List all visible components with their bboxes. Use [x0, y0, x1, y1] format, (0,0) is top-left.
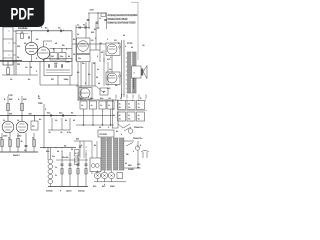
svg-text:anxiety: anxiety: [78, 190, 84, 193]
svg-text:F: F: [140, 145, 142, 147]
svg-text:2: 2: [66, 49, 68, 51]
svg-text:2: 2: [41, 27, 43, 29]
svg-text:Cn: Cn: [24, 150, 26, 152]
svg-text:Hi: Hi: [143, 45, 146, 47]
svg-text:6V6: 6V6: [107, 59, 111, 61]
svg-text:1A: 1A: [126, 153, 129, 156]
svg-text:3w: 3w: [119, 107, 122, 109]
svg-text:3k: 3k: [21, 141, 23, 143]
svg-text:4u: 4u: [97, 69, 99, 71]
svg-text:2: 2: [45, 109, 47, 111]
svg-text:Tndp: Tndp: [64, 79, 70, 81]
svg-text:4x: 4x: [100, 105, 102, 107]
svg-text:3w: 3w: [128, 119, 131, 121]
svg-text:4u: 4u: [28, 79, 31, 81]
svg-text:4u: 4u: [32, 138, 34, 140]
svg-text:A: A: [4, 98, 6, 101]
svg-text:4x: 4x: [128, 115, 130, 117]
svg-text:F Ta: F Ta: [67, 132, 72, 134]
svg-text:+x: +x: [99, 18, 101, 20]
svg-text:Cx: Cx: [77, 25, 79, 27]
svg-text:1: 1: [107, 39, 109, 41]
svg-text:PDF: PDF: [11, 5, 35, 23]
svg-text:x3: x3: [55, 43, 58, 45]
svg-text:2b: 2b: [73, 54, 76, 56]
svg-text:4u: 4u: [94, 29, 97, 31]
svg-text:x: x: [110, 57, 112, 59]
svg-text:C7B: C7B: [90, 10, 95, 12]
svg-text:x: x: [121, 134, 123, 136]
svg-text:x4: x4: [57, 151, 60, 153]
svg-text:2w: 2w: [115, 85, 118, 87]
svg-text:30u: 30u: [47, 113, 50, 115]
svg-text:4HP: 4HP: [23, 99, 28, 101]
svg-text:Tm: Tm: [52, 156, 55, 158]
svg-text:6V6: 6V6: [102, 186, 105, 188]
svg-text:F: F: [60, 191, 62, 193]
svg-text:x1: x1: [131, 47, 134, 49]
svg-text:x: x: [133, 151, 135, 153]
svg-text:a: a: [9, 43, 10, 45]
svg-text:Cx: Cx: [25, 67, 27, 69]
svg-text:2x: 2x: [123, 35, 126, 37]
svg-text:x: x: [104, 184, 106, 186]
svg-text:30u: 30u: [59, 113, 62, 115]
svg-text:2x: 2x: [93, 63, 96, 65]
svg-text:2k: 2k: [71, 149, 74, 151]
svg-text:N: N: [140, 98, 142, 100]
svg-text:120: 120: [137, 164, 141, 166]
svg-text:6V6: 6V6: [107, 88, 111, 90]
svg-text:GF1: GF1: [128, 165, 133, 167]
svg-text:Rx: Rx: [88, 74, 90, 76]
svg-text:47k: 47k: [91, 32, 95, 34]
svg-text:4x: 4x: [138, 104, 140, 106]
svg-text:1: 1: [36, 71, 38, 73]
svg-text:Cx: Cx: [58, 28, 62, 30]
svg-text:Rx: Rx: [109, 98, 111, 100]
svg-text:6V6: 6V6: [93, 186, 96, 188]
svg-text:45v 35x: 45v 35x: [62, 157, 69, 159]
svg-text:6CA4: 6CA4: [110, 185, 115, 188]
svg-text:3w: 3w: [138, 107, 141, 109]
svg-text:x2: x2: [30, 67, 33, 69]
svg-text:Rx: Rx: [38, 98, 42, 100]
svg-text:6: 6: [85, 83, 87, 85]
svg-text:2T,2R: 2T,2R: [127, 43, 133, 45]
svg-text:C: C: [86, 147, 88, 149]
svg-text:speed: speed: [66, 191, 71, 193]
svg-text:4u: 4u: [73, 39, 76, 41]
svg-text:4x: 4x: [116, 131, 119, 133]
svg-text:x1: x1: [73, 120, 76, 122]
svg-text:3x: 3x: [68, 56, 71, 58]
svg-text:Rx: Rx: [36, 39, 40, 41]
svg-text:Rx: Rx: [82, 63, 86, 65]
svg-text:47n: 47n: [29, 113, 33, 115]
svg-text:tremolo: tremolo: [46, 190, 54, 193]
svg-text:4x: 4x: [138, 115, 140, 117]
svg-text:12x: 12x: [78, 58, 81, 60]
svg-text:Rx: Rx: [71, 113, 73, 115]
svg-text:12AT: 12AT: [38, 102, 44, 105]
svg-text:15v: 15v: [60, 56, 64, 58]
svg-text:x: x: [27, 124, 29, 126]
svg-text:Cx: Cx: [55, 120, 59, 122]
svg-text:Cx: Cx: [10, 79, 14, 81]
svg-text:F: F: [115, 100, 117, 102]
svg-text:30b: 30b: [76, 139, 79, 141]
svg-text:30u: 30u: [80, 98, 83, 100]
svg-text:4x: 4x: [65, 120, 68, 122]
svg-text:3w: 3w: [138, 119, 141, 121]
svg-text:4x: 4x: [128, 104, 130, 106]
svg-text:4u: 4u: [39, 119, 42, 121]
svg-text:1k: 1k: [96, 77, 99, 79]
svg-text:1R: 1R: [0, 138, 3, 140]
svg-text:x: x: [125, 46, 127, 48]
svg-text:6: 6: [36, 58, 38, 60]
svg-text:1k: 1k: [49, 132, 51, 134]
svg-text:Rock T: Rock T: [13, 155, 21, 157]
svg-text:1x: 1x: [77, 34, 80, 36]
svg-text:3: 3: [118, 43, 120, 45]
svg-text:4u: 4u: [77, 72, 80, 74]
svg-text:1: 1: [108, 127, 110, 129]
svg-text:Drawn by Joe Piazza 7/2006: Drawn by Joe Piazza 7/2006: [108, 21, 136, 25]
svg-text:3w: 3w: [119, 119, 122, 121]
svg-text:4x: 4x: [81, 105, 83, 107]
svg-text:Cx: Cx: [55, 167, 57, 169]
svg-text:Power Sw: Power Sw: [134, 126, 144, 129]
svg-text:4n: 4n: [45, 28, 48, 30]
svg-text:12VAC: 12VAC: [128, 168, 135, 171]
svg-text:VAC: VAC: [137, 167, 142, 170]
svg-text:4HP: 4HP: [9, 99, 14, 101]
svg-text:a: a: [9, 31, 10, 33]
svg-text:4x: 4x: [119, 115, 121, 117]
svg-text:B: B: [18, 99, 20, 101]
svg-text:4: 4: [86, 151, 87, 153]
svg-text:1M: 1M: [17, 64, 20, 66]
svg-text:1R: 1R: [51, 79, 54, 81]
svg-text:47k: 47k: [17, 46, 21, 48]
svg-text:4x: 4x: [119, 104, 121, 106]
svg-text:T: T: [145, 100, 147, 102]
svg-text:x: x: [86, 154, 87, 156]
svg-text:+2V: +2V: [54, 63, 58, 65]
svg-text:4x: 4x: [8, 138, 10, 140]
svg-text:Tndx: Tndx: [65, 62, 71, 64]
svg-text:x4: x4: [75, 161, 77, 163]
svg-text:4x: 4x: [91, 105, 93, 107]
svg-text:x4: x4: [98, 83, 101, 85]
svg-text:x: x: [81, 145, 83, 147]
svg-text:4x: 4x: [75, 153, 77, 155]
svg-text:30u: 30u: [90, 98, 93, 100]
svg-text:Power Sw: Power Sw: [133, 137, 143, 140]
svg-text:3w: 3w: [128, 107, 131, 109]
svg-text:x2: x2: [101, 52, 104, 54]
svg-text:TR: TR: [32, 126, 35, 128]
svg-text:7: 7: [53, 49, 55, 51]
svg-text:C: C: [113, 109, 115, 111]
svg-text:C3: C3: [114, 40, 118, 42]
svg-text:1: 1: [46, 44, 48, 46]
svg-text:5: 5: [97, 56, 99, 58]
svg-text:PT 6.3V: PT 6.3V: [100, 134, 108, 136]
svg-text:30u: 30u: [46, 151, 50, 153]
svg-text:Rx: Rx: [62, 45, 66, 47]
svg-text:4x: 4x: [113, 115, 115, 117]
svg-text:47k: 47k: [9, 113, 13, 115]
svg-text:30u: 30u: [100, 98, 103, 100]
svg-text:Rx: Rx: [83, 25, 85, 27]
svg-text:2k: 2k: [61, 132, 63, 134]
svg-text:x2: x2: [99, 127, 102, 129]
svg-text:4x: 4x: [108, 105, 110, 107]
svg-text:3k: 3k: [55, 175, 57, 177]
svg-text:a: a: [9, 55, 10, 57]
svg-text:2x: 2x: [17, 57, 20, 59]
svg-text:Cx Multa: Cx Multa: [18, 27, 28, 30]
svg-text:4x: 4x: [94, 145, 97, 147]
svg-text:Cx: Cx: [91, 40, 95, 42]
svg-text:1M: 1M: [51, 56, 54, 58]
